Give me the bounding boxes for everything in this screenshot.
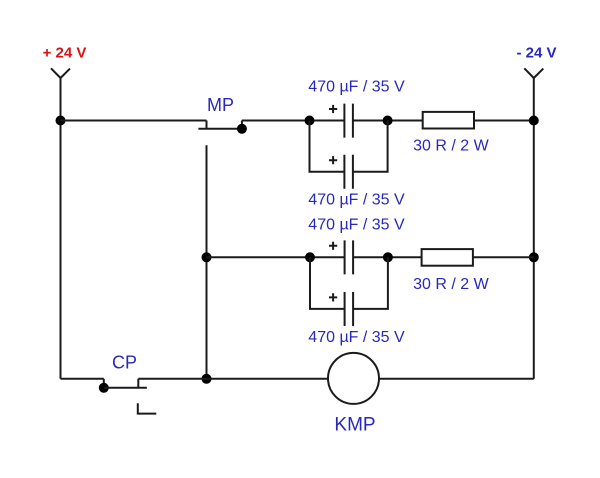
svg-text:30 R / 2 W: 30 R / 2 W (413, 138, 489, 155)
wire R1 to right rail (474, 120, 534, 122)
svg-text:MP: MP (207, 95, 234, 115)
node junction right rail / top wire (529, 116, 539, 126)
svg-text:- 24 V: - 24 V (516, 45, 556, 62)
coil KMP (328, 353, 379, 404)
svg-text:470 µF / 35 V: 470 µF / 35 V (308, 192, 405, 209)
node junction left rail / top wire (56, 116, 66, 126)
capacitor C4 plates (345, 292, 354, 326)
node bank1 right (383, 116, 393, 126)
svg-text:CP: CP (112, 353, 137, 373)
power +24V symbol (51, 68, 70, 78)
svg-text:470 µF / 35 V: 470 µF / 35 V (308, 217, 405, 234)
node bank2 left (305, 252, 315, 262)
wire bank2 lower loop left (310, 257, 345, 309)
capacitor C4 polarity + (329, 293, 337, 301)
wire left rail vertical (60, 78, 62, 379)
node bank2 right (383, 252, 393, 262)
capacitor C3 polarity + (329, 242, 337, 250)
node junction branch / bottom wire (202, 374, 212, 384)
capacitor C2 plates (344, 155, 353, 189)
capacitor C2 polarity + (329, 156, 337, 164)
wire switch CP to coil KMP (138, 378, 328, 380)
node bank1 left (305, 116, 315, 126)
wire branch vertical from MP to lower rows (206, 145, 208, 378)
capacitor C1 polarity + (329, 105, 337, 113)
power -24V symbol (524, 68, 543, 78)
resistor R2 (422, 249, 473, 266)
svg-text:KMP: KMP (334, 415, 375, 436)
wire top row from left rail to switch MP (61, 120, 207, 122)
wire right rail vertical (533, 78, 535, 379)
wire R2 to right rail (473, 256, 534, 258)
wire switch MP to capacitor bank 1 (242, 120, 344, 122)
svg-text:+ 24 V: + 24 V (43, 45, 87, 62)
switch CP (99, 379, 157, 414)
wire C1 right to node (353, 120, 423, 122)
wire bank1 lower loop left (310, 121, 345, 172)
svg-text:470 µF / 35 V: 470 µF / 35 V (308, 329, 405, 346)
wire bank2 lower loop right (353, 257, 388, 309)
wire bank1 lower loop right (353, 121, 388, 172)
wire coil KMP to right rail (379, 378, 534, 380)
svg-text:470 µF / 35 V: 470 µF / 35 V (308, 79, 405, 96)
capacitor C1 plates (344, 104, 353, 138)
svg-text:30 R / 2 W: 30 R / 2 W (413, 276, 489, 293)
wire C3 right to resistor R2 (353, 256, 422, 258)
wire row2 branch to bank2 (207, 256, 345, 258)
capacitor C3 plates (345, 240, 354, 274)
node junction branch / row2 (202, 252, 212, 262)
resistor R1 (423, 112, 474, 129)
wire bottom from left rail to switch CP (61, 378, 104, 380)
switch MP (198, 121, 247, 134)
node junction right rail / row2 (529, 252, 539, 262)
